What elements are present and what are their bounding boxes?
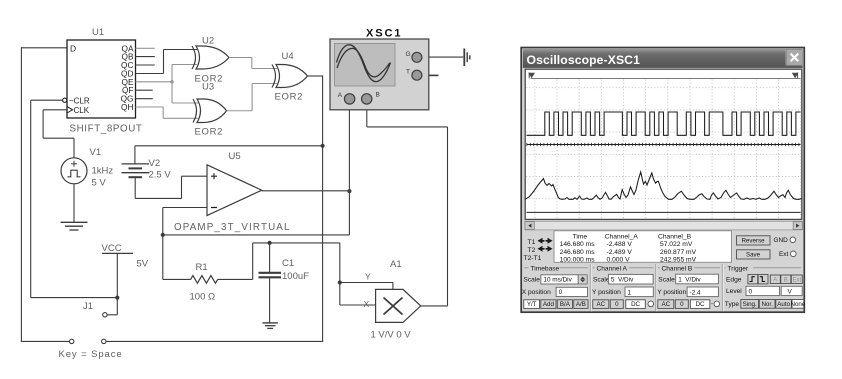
svg-text:Sing.: Sing. xyxy=(743,301,757,308)
svg-text:EOR2: EOR2 xyxy=(195,127,224,138)
scope display area xyxy=(525,69,802,219)
wire QF stub xyxy=(136,89,153,91)
svg-text:DC: DC xyxy=(631,301,640,308)
svg-text:J1: J1 xyxy=(83,301,93,312)
svg-text:Y: Y xyxy=(365,271,371,281)
panel Channel A xyxy=(589,264,591,312)
instrument XSC1 oscilloscope icon xyxy=(330,39,429,110)
svg-text:U3: U3 xyxy=(202,82,214,93)
wire V1 to ground xyxy=(73,184,75,223)
svg-text:Level: Level xyxy=(726,288,742,295)
svg-text:0: 0 xyxy=(749,288,753,295)
svg-text:AC: AC xyxy=(596,301,605,308)
XSC1 terminal A xyxy=(344,94,354,104)
svg-text:0: 0 xyxy=(559,289,563,296)
svg-text:T: T xyxy=(406,69,410,76)
svg-text:A/B: A/B xyxy=(576,301,586,308)
svg-text:V2: V2 xyxy=(149,158,161,169)
svg-text:1 V/Div: 1 V/Div xyxy=(678,277,701,284)
junction QE node xyxy=(170,80,173,83)
svg-text:Timebase: Timebase xyxy=(531,265,560,272)
wire CLK to V1 clock source xyxy=(43,109,67,111)
svg-text:Channel B: Channel B xyxy=(662,265,693,272)
wire QD to U2 input 1 xyxy=(136,73,164,75)
wire multiplier output to scope B xyxy=(421,305,448,307)
svg-text:A: A xyxy=(773,277,777,283)
svg-text:-2.489 V: -2.489 V xyxy=(607,249,633,256)
button Save xyxy=(737,250,771,259)
svg-text:242.955 mV: 242.955 mV xyxy=(660,257,697,264)
svg-text:CLK: CLK xyxy=(74,106,90,115)
svg-text:100 Ω: 100 Ω xyxy=(190,292,216,303)
svg-text:10 ms/Div: 10 ms/Div xyxy=(543,277,572,284)
display lower axis line xyxy=(527,211,801,213)
svg-text:Y position: Y position xyxy=(657,289,686,296)
XSC1 terminal T xyxy=(412,70,422,80)
svg-text:1: 1 xyxy=(628,289,632,296)
svg-text:Time: Time xyxy=(573,233,588,240)
svg-text:100uF: 100uF xyxy=(282,271,309,282)
svg-text:AC: AC xyxy=(661,301,670,308)
svg-text:DC: DC xyxy=(696,301,705,308)
svg-text:100.000 ms: 100.000 ms xyxy=(560,257,596,264)
ground below C1 xyxy=(263,322,278,324)
display grid dotted lines xyxy=(526,80,801,219)
ground right of XSC1 (rotated) xyxy=(463,49,465,67)
svg-text:~CLR: ~CLR xyxy=(69,96,90,105)
wire QG stub xyxy=(136,98,153,100)
svg-text:X position: X position xyxy=(522,289,551,296)
wire XSC1 G to ground xyxy=(429,56,463,58)
power VCC symbol xyxy=(102,252,133,254)
multiplier A1 xyxy=(376,289,421,322)
readout table xyxy=(554,231,732,262)
svg-text:Ext: Ext xyxy=(792,277,801,283)
svg-text:-: - xyxy=(711,301,713,308)
XSC1 terminal B xyxy=(362,94,372,104)
waveform channel B (analog noise) xyxy=(525,172,802,199)
display cursor handle band separator xyxy=(531,77,801,79)
svg-text:1kHz: 1kHz xyxy=(92,166,114,177)
svg-text:Auto: Auto xyxy=(777,301,790,308)
wire R1 to C1 top node xyxy=(252,243,254,280)
window close button xyxy=(786,50,802,66)
svg-text:-2.488 V: -2.488 V xyxy=(607,241,633,248)
wire V2 bottom to op-amp + input xyxy=(134,177,136,198)
svg-text:R1: R1 xyxy=(196,262,208,273)
svg-text:Add: Add xyxy=(543,301,555,308)
svg-text:V: V xyxy=(788,288,793,295)
svg-text:Trigger: Trigger xyxy=(728,265,749,272)
button Reverse xyxy=(737,236,771,245)
junction VCC / CLR / J1 node xyxy=(115,296,119,300)
waveform channel A (digital) xyxy=(527,112,801,135)
svg-text:246.680 ms: 246.680 ms xyxy=(560,249,596,256)
svg-text:None: None xyxy=(791,301,806,308)
svg-text:0: 0 xyxy=(615,301,619,308)
svg-text:0: 0 xyxy=(680,301,684,308)
svg-text:B: B xyxy=(784,277,788,283)
svg-text:U1: U1 xyxy=(92,27,104,38)
wire C1 node to multiplier X and Y inputs xyxy=(339,243,341,305)
svg-text:X: X xyxy=(364,299,370,309)
svg-text:Channel_B: Channel_B xyxy=(658,233,692,240)
wire U4 output to feedback node xyxy=(308,75,323,77)
svg-text:57.022 mV: 57.022 mV xyxy=(660,241,693,248)
svg-text:-2.4: -2.4 xyxy=(690,289,701,296)
display scrollbar xyxy=(525,221,802,230)
svg-text:Edge: Edge xyxy=(726,277,742,284)
svg-text:G: G xyxy=(406,51,411,58)
svg-text:146.680 ms: 146.680 ms xyxy=(560,241,596,248)
svg-text:B/A: B/A xyxy=(560,301,571,308)
svg-text:1 V/V 0 V: 1 V/V 0 V xyxy=(371,329,412,340)
svg-text:XSC1: XSC1 xyxy=(366,28,402,40)
svg-text:Channel_A: Channel_A xyxy=(605,233,639,240)
svg-text:T2-T1: T2-T1 xyxy=(524,255,542,262)
wire QE to U2 input 2 and U3 input 1 xyxy=(136,81,173,83)
junction inverting input / R1 node xyxy=(161,233,165,237)
wire key switch to feedback vertical (bottom) xyxy=(106,340,323,342)
xor gate U3 EOR2 xyxy=(197,99,227,123)
svg-text:Scale: Scale xyxy=(593,277,610,284)
svg-text:Reverse: Reverse xyxy=(741,237,765,244)
svg-text:5 V: 5 V xyxy=(92,178,107,189)
svg-text:SHIFT_8POUT: SHIFT_8POUT xyxy=(70,123,143,134)
xor gate U2 EOR2 xyxy=(196,46,229,69)
svg-text:U4: U4 xyxy=(282,51,294,62)
display cursor markers T1 T2 xyxy=(528,73,535,78)
svg-text:Oscilloscope-XSC1: Oscilloscope-XSC1 xyxy=(527,53,641,67)
svg-text:D: D xyxy=(70,43,76,53)
svg-text:0.000 V: 0.000 V xyxy=(607,257,631,264)
svg-text:Y position: Y position xyxy=(592,289,621,296)
battery V2 2.5V xyxy=(122,163,150,165)
wire ~CLR to VCC rail xyxy=(31,99,63,101)
wire C1 to ground xyxy=(269,277,271,323)
wire op-amp output net to scope A xyxy=(163,234,350,236)
svg-text:U5: U5 xyxy=(229,151,241,162)
window title bar xyxy=(523,49,803,68)
wire D feedback net: left vertical from D input down to key switch xyxy=(21,47,67,49)
panel Channel B xyxy=(655,264,657,312)
svg-text:QH: QH xyxy=(121,102,133,112)
wire QB stub xyxy=(136,56,155,58)
display axis line with ticks xyxy=(527,144,801,146)
wire XSC1 T stub xyxy=(429,74,439,76)
svg-text:Channel A: Channel A xyxy=(597,265,628,272)
oscilloscope window frame xyxy=(521,48,804,313)
wire QA stub xyxy=(136,47,155,49)
panel Timebase xyxy=(524,267,588,269)
svg-text:Scale: Scale xyxy=(523,277,540,284)
ground below V1 xyxy=(61,221,88,223)
svg-text:Y/T: Y/T xyxy=(527,301,537,308)
svg-text:C1: C1 xyxy=(282,258,294,269)
svg-text:OPAMP_3T_VIRTUAL: OPAMP_3T_VIRTUAL xyxy=(174,222,291,233)
svg-text:260.877 mV: 260.877 mV xyxy=(660,249,697,256)
XSC1 terminal G xyxy=(412,52,422,62)
wire U2 output to U4 input 1 xyxy=(229,57,252,59)
svg-text:2.5 V: 2.5 V xyxy=(149,170,172,181)
shift register U1 SHIFT_8POUT body xyxy=(67,40,136,118)
junction feedback node xyxy=(321,144,325,148)
svg-text:Ext: Ext xyxy=(779,251,788,258)
svg-text:Save: Save xyxy=(746,251,761,258)
XSC1 icon sine curves xyxy=(337,45,391,82)
clock source V1 1kHz 5V xyxy=(61,158,87,184)
svg-text:U2: U2 xyxy=(202,36,214,47)
wire QH to U3 input 2 xyxy=(136,106,164,108)
panel Trigger xyxy=(721,264,723,312)
svg-text:Scale: Scale xyxy=(658,277,675,284)
svg-text:T1: T1 xyxy=(528,239,536,246)
svg-text:V1: V1 xyxy=(90,147,102,158)
svg-text:5V: 5V xyxy=(137,258,149,269)
svg-text:Type: Type xyxy=(725,301,740,308)
wire QC stub xyxy=(136,64,155,66)
wire op-amp inverting input to feedback node xyxy=(163,207,207,209)
svg-text:A: A xyxy=(338,92,343,99)
svg-text:EOR2: EOR2 xyxy=(275,92,304,103)
svg-text:Nor.: Nor. xyxy=(761,301,773,308)
svg-text:5 V/Div: 5 V/Div xyxy=(611,277,634,284)
svg-text:GND: GND xyxy=(774,237,789,244)
svg-text:T2: T2 xyxy=(528,247,536,254)
svg-text:A1: A1 xyxy=(390,259,402,270)
xor gate U4 EOR2 xyxy=(276,65,308,88)
svg-text:Key = Space: Key = Space xyxy=(59,349,123,360)
wire feedback node to V2 battery top xyxy=(135,145,323,147)
switch J1 xyxy=(116,298,118,315)
op-amp U5 OPAMP_3T_VIRTUAL xyxy=(207,165,262,216)
resistor R1 100 Ohm xyxy=(162,235,164,280)
svg-text:B: B xyxy=(376,91,380,98)
wire U3 output to U4 input 2 xyxy=(227,110,253,112)
junction C1 top node xyxy=(268,241,272,245)
capacitor C1 100uF xyxy=(269,243,271,272)
svg-text:VCC: VCC xyxy=(102,243,122,254)
